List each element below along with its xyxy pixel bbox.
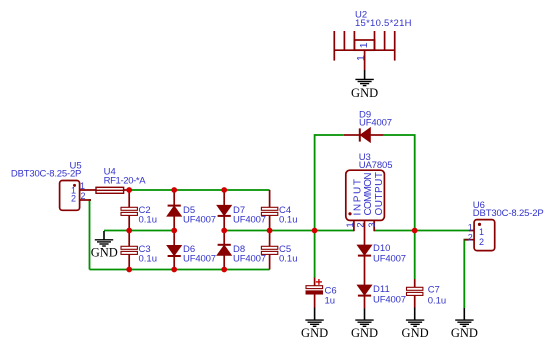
- svg-text:UF4007: UF4007: [183, 253, 216, 264]
- svg-text:2: 2: [81, 191, 86, 201]
- svg-text:UF4007: UF4007: [373, 295, 406, 306]
- svg-text:2: 2: [71, 193, 76, 203]
- svg-text:1: 1: [345, 222, 356, 227]
- svg-text:0.1u: 0.1u: [139, 214, 158, 225]
- svg-text:GND: GND: [301, 326, 328, 340]
- svg-text:UF4007: UF4007: [359, 118, 392, 129]
- svg-text:GND: GND: [451, 326, 478, 340]
- svg-text:UF4007: UF4007: [373, 254, 406, 265]
- svg-text:0.1u: 0.1u: [279, 214, 298, 225]
- svg-text:2: 2: [468, 232, 473, 242]
- svg-text:1: 1: [80, 181, 85, 191]
- svg-text:0.1u: 0.1u: [428, 295, 447, 306]
- svg-text:1: 1: [479, 227, 484, 237]
- svg-text:C7: C7: [428, 285, 440, 296]
- svg-text:GND: GND: [351, 86, 378, 100]
- svg-text:1: 1: [355, 55, 367, 61]
- svg-text:UA7805: UA7805: [359, 160, 393, 171]
- svg-text:OUTPUT: OUTPUT: [374, 172, 385, 216]
- svg-text:1u: 1u: [325, 296, 336, 307]
- svg-text:1: 1: [468, 223, 473, 233]
- svg-text:DBT30C-8.25-2P: DBT30C-8.25-2P: [473, 208, 544, 219]
- svg-text:RF1-20-*A: RF1-20-*A: [104, 176, 147, 187]
- svg-text:0.1u: 0.1u: [139, 253, 158, 264]
- svg-text:INPUT: INPUT: [352, 179, 363, 216]
- svg-text:UF4007: UF4007: [233, 253, 266, 264]
- svg-text:DBT30C-8.25-2P: DBT30C-8.25-2P: [11, 168, 82, 179]
- svg-text:1: 1: [358, 42, 370, 48]
- svg-text:COMMON: COMMON: [363, 173, 374, 216]
- svg-text:UF4007: UF4007: [233, 214, 266, 225]
- svg-text:3: 3: [367, 222, 378, 227]
- svg-text:UF4007: UF4007: [183, 214, 216, 225]
- svg-text:GND: GND: [351, 326, 378, 340]
- svg-text:15*10.5*21H: 15*10.5*21H: [355, 18, 412, 29]
- svg-text:D11: D11: [373, 284, 390, 295]
- svg-text:GND: GND: [402, 326, 429, 340]
- svg-text:2: 2: [479, 237, 484, 247]
- svg-text:0.1u: 0.1u: [279, 253, 298, 264]
- svg-text:2: 2: [356, 222, 367, 227]
- svg-text:GND: GND: [91, 245, 118, 259]
